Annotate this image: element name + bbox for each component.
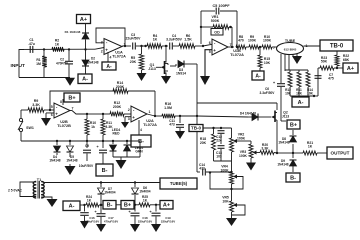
svg-text:TL072A: TL072A [112, 55, 126, 59]
ground C18 [130, 224, 140, 232]
capacitor C17 [94, 205, 118, 224]
svg-text:J113: J113 [148, 67, 156, 71]
capacitor C6 [260, 80, 286, 121]
svg-text:D1 1N4148: D1 1N4148 [65, 30, 81, 34]
ground tube [292, 54, 302, 64]
node input-R1 [43, 48, 45, 50]
svg-text:1K: 1K [308, 145, 313, 149]
svg-text:TB-0: TB-0 [330, 44, 344, 50]
svg-text:TUBE: TUBE [285, 39, 296, 43]
node D8 D9 [292, 152, 294, 154]
ground C17 [96, 224, 106, 232]
svg-text:1.5K: 1.5K [184, 38, 192, 42]
resistor R10 [260, 35, 277, 49]
power B+ box (psu) [121, 201, 134, 210]
svg-text:100K: 100K [237, 137, 246, 141]
svg-text:3.3K: 3.3K [261, 147, 269, 151]
wire U1A feedback [96, 28, 125, 46]
power A+ box (top) [77, 15, 91, 24]
resistor R24 [80, 195, 103, 207]
svg-text:6: 6 [51, 113, 53, 117]
svg-text:+: + [55, 111, 58, 116]
ground D5 [65, 164, 76, 175]
svg-text:470P/50: 470P/50 [56, 61, 68, 65]
diode D7 [98, 183, 116, 206]
svg-text:7: 7 [72, 107, 74, 111]
tube V1 socket [273, 39, 308, 55]
svg-text:8: 8 [60, 100, 62, 104]
svg-text:100K: 100K [239, 154, 248, 158]
resistor R4 [142, 34, 163, 48]
ground LED [116, 157, 127, 169]
power A- box (under D2) [78, 74, 92, 84]
capacitor C2 [56, 49, 73, 77]
svg-text:22uF/50V: 22uF/50V [126, 37, 142, 41]
svg-text:50K: 50K [321, 60, 328, 64]
capacitor C10 [96, 141, 107, 164]
svg-text:5: 5 [209, 50, 211, 54]
svg-text:A-: A- [106, 64, 112, 70]
capacitor C18 [128, 205, 152, 224]
power B- box (U2A) [131, 135, 151, 147]
wire U2B pin6 gnd [41, 113, 54, 126]
tube resistor bottom rail [290, 87, 315, 97]
svg-text:220uF/16V: 220uF/16V [138, 219, 152, 223]
svg-text:TL072A: TL072A [230, 53, 244, 57]
node U1A out [122, 45, 131, 47]
wire feedback top [50, 91, 115, 110]
capacitor C14 [197, 163, 233, 176]
svg-text:1N4148: 1N4148 [277, 162, 288, 166]
wire tone top [203, 127, 232, 129]
tube pin wires [281, 54, 293, 83]
wire input top [19, 48, 104, 50]
LED4 [110, 128, 121, 157]
svg-text:A-: A- [298, 100, 304, 106]
resistor R11 (tube) [296, 72, 303, 95]
node Q1 line join [196, 64, 198, 117]
power B- box (C10) [96, 164, 113, 176]
svg-text:1N914: 1N914 [176, 72, 186, 76]
node D6 rail [134, 181, 136, 183]
wire sw1 left [20, 110, 22, 118]
svg-text:TL072A: TL072A [143, 123, 157, 127]
svg-text:1K: 1K [87, 199, 92, 203]
svg-text:A+: A+ [80, 17, 87, 23]
svg-text:GRN: GRN [135, 150, 143, 154]
wire U2A out [147, 114, 162, 117]
svg-text:SW1: SW1 [26, 126, 34, 130]
ground VR3 [246, 163, 256, 171]
power B- box (psu) [103, 201, 116, 210]
svg-text:OUTPUT: OUTPUT [331, 151, 350, 156]
svg-text:7: 7 [273, 46, 275, 50]
resistor R8 [236, 35, 249, 49]
wire U1B pin5 down [200, 50, 212, 85]
wire jfet rail [197, 103, 277, 110]
resistor R1 [36, 49, 47, 77]
transformer secondary top [41, 182, 160, 183]
net label TB-0 (top) [320, 40, 353, 51]
power A+ box (psu) [160, 201, 173, 210]
resistor R9 [248, 35, 260, 49]
LED5 [124, 141, 144, 157]
LED block wires [112, 140, 140, 157]
ground Q1 [161, 76, 171, 84]
svg-text:103: 103 [216, 155, 222, 159]
svg-text:D4 1N4148: D4 1N4148 [240, 112, 256, 116]
wire U2B pin8 [60, 99, 63, 105]
transformer T1 label [37, 178, 41, 182]
input jack J1 [11, 49, 71, 77]
svg-text:3.3uF/50V: 3.3uF/50V [166, 38, 183, 42]
svg-text:200K: 200K [113, 105, 122, 109]
ground T1 [47, 199, 58, 207]
net label OD box [211, 29, 223, 36]
resistor R15 to A- [258, 47, 271, 71]
svg-text:1N4148: 1N4148 [278, 140, 289, 144]
resistor R10b [85, 114, 96, 141]
svg-text:4: 4 [140, 128, 142, 132]
diode D4b [240, 112, 271, 121]
transformer T1 [33, 181, 44, 199]
svg-text:B-: B- [290, 175, 296, 181]
wire TB-0 down [196, 116, 198, 172]
node input-D2 [84, 48, 86, 50]
svg-text:10uF/50V: 10uF/50V [79, 164, 94, 168]
svg-text:A+: A+ [163, 203, 170, 209]
wire U1B pin6 [203, 44, 212, 46]
svg-text:100K: 100K [263, 39, 272, 43]
svg-text:INPUT: INPUT [11, 63, 25, 69]
transformer secondary bottom [41, 197, 52, 199]
wire U1A pin4 to A- [108, 52, 112, 62]
svg-text:TL072B: TL072B [57, 124, 71, 128]
svg-text:3: 3 [128, 117, 130, 121]
resistor R2 [52, 39, 64, 52]
svg-text:B+: B+ [290, 122, 297, 128]
power A- box (tube) [292, 97, 309, 107]
op-amp U1B [209, 39, 244, 57]
wire U2A pin4 [139, 120, 142, 135]
ground R5 [137, 70, 147, 81]
wire tube out right [304, 45, 321, 47]
svg-text:+: + [213, 48, 216, 53]
resistor R22 [335, 51, 350, 66]
wire tone bottom [214, 160, 232, 162]
svg-text:J113: J113 [282, 115, 289, 119]
svg-text:A-: A- [69, 204, 75, 210]
svg-text:1k: 1k [91, 125, 95, 129]
svg-text:20K: 20K [200, 141, 207, 145]
capacitor C5 [201, 4, 237, 46]
power A- box (psu) [63, 201, 80, 211]
transformer primary leads [8, 182, 36, 197]
net label TUBE5 box [160, 178, 197, 189]
svg-text:.47u: .47u [28, 42, 35, 46]
transistor Q1 [148, 46, 168, 76]
switch SW1 [18, 118, 34, 141]
power A+ box (right) [337, 63, 358, 73]
node U1B in [202, 45, 204, 47]
potentiometer VR1 [200, 15, 232, 46]
svg-text:A+: A+ [347, 66, 354, 72]
resistor R5 [130, 46, 144, 70]
svg-text:220uF/16V: 220uF/16V [161, 219, 175, 223]
svg-text:B-: B- [102, 168, 108, 174]
svg-text:C5 100PF: C5 100PF [212, 4, 230, 8]
diode D2 [82, 49, 99, 74]
resistor R20 [260, 143, 277, 155]
resistor R12b [103, 101, 131, 116]
svg-text:TUBE(5): TUBE(5) [170, 181, 188, 186]
power B- box (output) [286, 173, 300, 182]
diode D1 [65, 24, 89, 50]
svg-text:475: 475 [328, 77, 334, 81]
svg-text:100K: 100K [220, 169, 229, 173]
ground C19 [151, 224, 161, 232]
resistor R9B input [21, 99, 44, 112]
wire mid [87, 113, 103, 115]
diode D4 clip [49, 141, 60, 162]
capacitor C12 [216, 128, 225, 144]
wire stage2 to Q2 [197, 116, 252, 117]
svg-text:612 8845: 612 8845 [284, 48, 297, 52]
op-amp U2A [128, 106, 157, 127]
svg-text:1K: 1K [143, 199, 148, 203]
node R10b top [86, 113, 88, 115]
resistor R13 feedback [113, 81, 155, 115]
node R11b top [102, 113, 104, 115]
svg-text:224: 224 [216, 139, 222, 143]
capacitor C11 [169, 116, 184, 131]
resistor R6 [179, 34, 203, 48]
svg-text:B+: B+ [124, 203, 131, 209]
svg-text:68K: 68K [343, 58, 350, 62]
node input-C2 [68, 48, 70, 50]
svg-text:473: 473 [199, 167, 205, 171]
tube cathode rail [285, 70, 308, 72]
capacitor C4 [166, 34, 183, 50]
op-amp U1A [101, 39, 126, 59]
node Q2 output join [276, 152, 293, 154]
resistor R12 (tube) [285, 72, 292, 95]
capacitor C16 [80, 205, 99, 223]
capacitor C9 [79, 141, 94, 168]
power B+ box (output) [287, 120, 300, 129]
svg-text:3.3uF/50V: 3.3uF/50V [260, 91, 276, 95]
capacitor C13 [216, 146, 225, 161]
node C3-R5 [140, 45, 146, 47]
svg-text:470: 470 [238, 39, 244, 43]
svg-text:1N4004: 1N4004 [104, 190, 115, 194]
resistor R11b [101, 114, 113, 141]
svg-text:1K: 1K [55, 42, 60, 46]
wire U2B out [70, 111, 87, 115]
node R9-R10 [259, 46, 261, 48]
svg-text:1N4148: 1N4148 [87, 60, 98, 64]
svg-text:100K: 100K [248, 39, 257, 43]
svg-text:RED: RED [113, 132, 121, 136]
ground input [65, 78, 75, 86]
svg-text:OD: OD [214, 31, 220, 35]
potentiometer VR2 [230, 128, 252, 172]
wire B+ to D6 [116, 204, 139, 206]
resistor R16 [162, 102, 180, 118]
svg-text:1N4148: 1N4148 [49, 158, 60, 162]
power A- box (U1A) [102, 62, 116, 70]
power B+ box (U2B) [64, 93, 80, 102]
capacitor C3 [126, 33, 144, 50]
svg-text:+: + [105, 48, 108, 53]
wire stage2 bottom rail [21, 140, 140, 142]
svg-text:B-: B- [138, 139, 144, 145]
diode D3 [170, 61, 197, 76]
capacitor C1 [28, 38, 35, 53]
node U1B out [228, 46, 238, 48]
potentiometer VR5 [222, 196, 245, 216]
output jack box [327, 147, 353, 159]
power A- box (R15) [252, 71, 264, 80]
svg-text:C9: C9 [85, 144, 89, 148]
svg-text:+: + [132, 115, 135, 120]
transistor Q2 [271, 111, 289, 154]
svg-text:1N4004: 1N4004 [139, 189, 150, 193]
ground C11 [175, 131, 185, 139]
node R22 bottom [336, 66, 338, 69]
ground C16 [80, 221, 89, 229]
resistor R23 [318, 56, 337, 70]
svg-text:470uF/16V: 470uF/16V [104, 219, 118, 223]
svg-text:3.3K: 3.3K [32, 103, 40, 107]
svg-text:B-: B- [107, 203, 113, 209]
svg-text:1.5M: 1.5M [164, 106, 172, 110]
diode D6 [132, 183, 151, 205]
wire U1B fb vertical [200, 11, 202, 44]
svg-text:200K: 200K [116, 85, 125, 89]
svg-text:4: 4 [110, 56, 112, 60]
diode D9 [277, 153, 296, 172]
svg-text:20K: 20K [130, 60, 137, 64]
capacitor C7 [314, 68, 334, 96]
potentiometer VR3 volume [239, 141, 260, 163]
svg-text:2: 2 [128, 108, 130, 112]
svg-text:TB-0: TB-0 [191, 126, 202, 131]
node C11 top [179, 115, 197, 117]
svg-text:B+: B+ [68, 95, 75, 101]
node D7 rail [100, 181, 102, 206]
op-amp U2B [51, 103, 74, 128]
svg-text:10K: 10K [222, 200, 229, 204]
net label TB-0 (mid) [189, 125, 203, 132]
svg-text:473: 473 [169, 123, 175, 127]
svg-text:5: 5 [51, 105, 53, 109]
svg-text:10K: 10K [285, 91, 292, 95]
resistor R18 [200, 128, 216, 161]
potentiometer VR4 [209, 165, 243, 190]
resistor R21 [293, 141, 327, 155]
svg-text:A-: A- [255, 73, 261, 79]
svg-text:1: 1 [149, 110, 151, 114]
svg-text:500K: 500K [211, 19, 220, 23]
svg-text:2 5 0VAC: 2 5 0VAC [8, 189, 23, 193]
svg-text:1N4148: 1N4148 [66, 158, 77, 162]
capacitor C19 [149, 205, 175, 224]
svg-text:1M: 1M [36, 62, 41, 66]
resistor R25 [139, 195, 160, 207]
diode D5 clip [66, 141, 77, 162]
svg-text:A-: A- [82, 77, 88, 83]
resistor R14 (tube) [306, 72, 314, 95]
wire U2A pin3 gnd [121, 117, 131, 128]
node VR4 bottom [230, 184, 232, 201]
svg-text:10K: 10K [264, 61, 271, 65]
diode D8 [278, 130, 296, 153]
node stage2 in [44, 109, 54, 111]
node R4-C4 [162, 45, 168, 47]
ground VR5 [226, 212, 237, 226]
svg-text:2: 2 [101, 49, 103, 53]
svg-text:1K: 1K [153, 38, 158, 42]
